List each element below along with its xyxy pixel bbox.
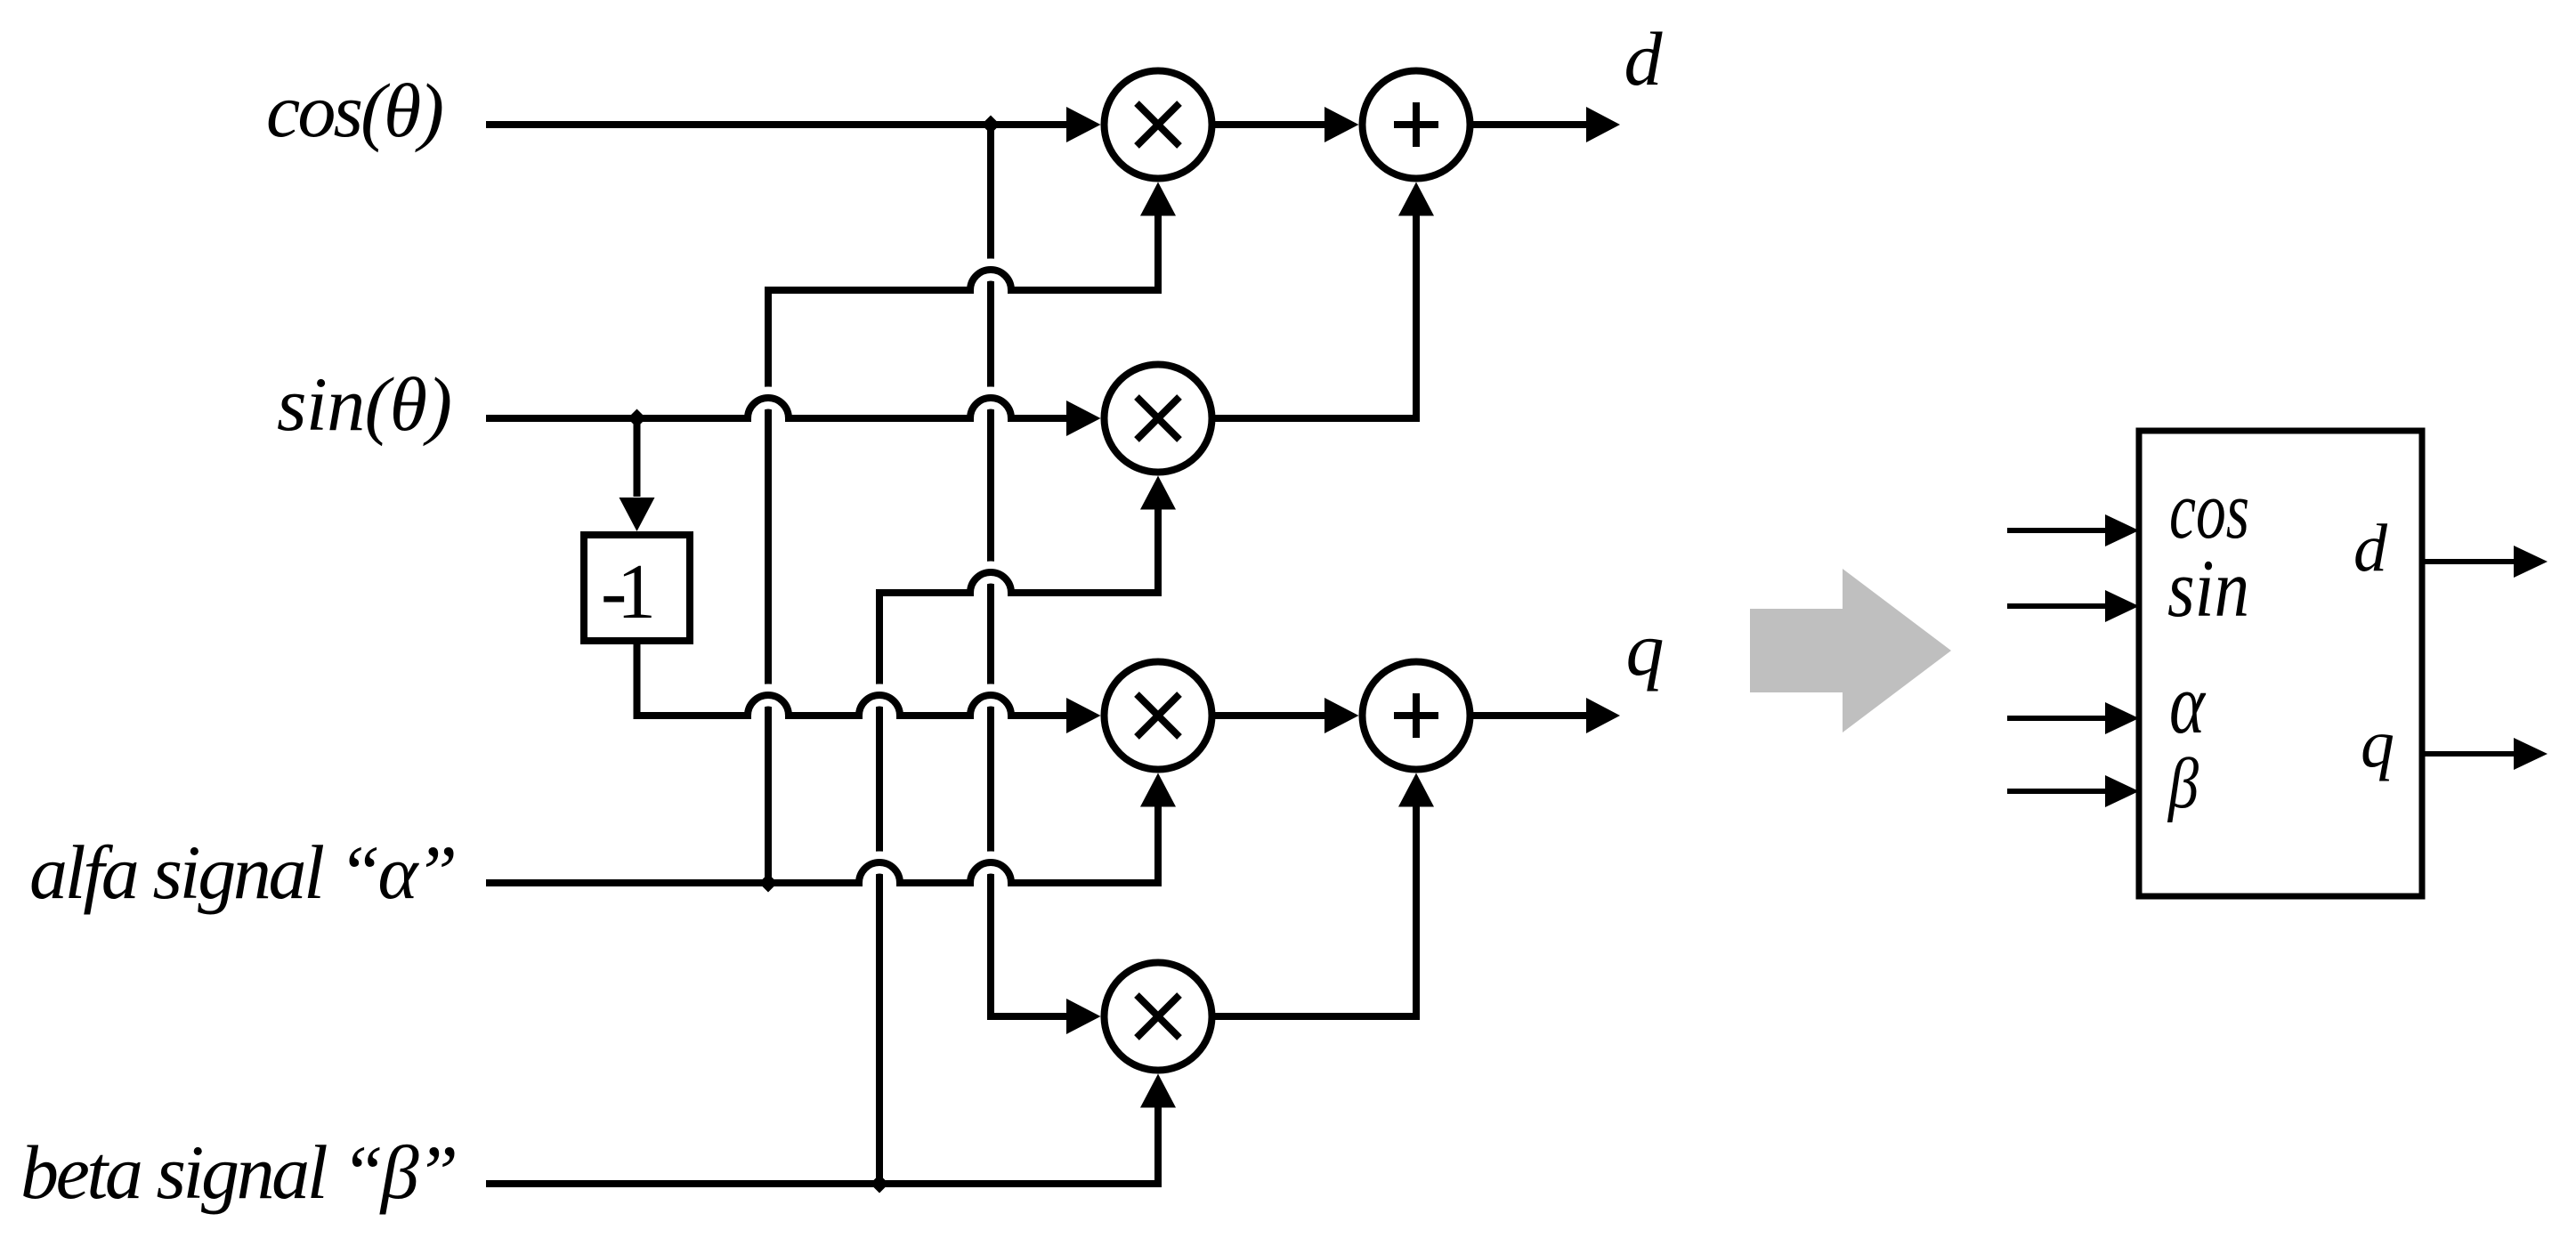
junction node on cos line bbox=[982, 116, 1000, 134]
wire M4 output up into A2 bottom bbox=[1215, 806, 1416, 1016]
arrowhead into M2 bottom bbox=[1140, 476, 1176, 510]
wire sin row y=470 with hops bbox=[486, 398, 1068, 418]
wire sin junction down into -1 box bbox=[634, 418, 641, 497]
arrowhead into M4 left bbox=[1066, 999, 1101, 1034]
adder A1 bbox=[1363, 71, 1470, 179]
multiplier M1 bbox=[1105, 71, 1212, 179]
block symbol rectangle bbox=[2139, 431, 2422, 896]
svg-text:-1: -1 bbox=[601, 549, 656, 635]
wire vertical V3 cos feed-down x=1113 bbox=[991, 125, 1066, 1016]
arrowhead q output bbox=[1586, 698, 1620, 733]
arrowhead d output bbox=[1586, 107, 1620, 142]
svg-text:β: β bbox=[2167, 745, 2199, 823]
svg-text:q: q bbox=[2361, 707, 2394, 781]
arrowhead into -1 box top bbox=[620, 498, 655, 531]
arrowhead into A2 left bbox=[1324, 698, 1359, 733]
wire beta feed y=666 into M2 bottom bbox=[952, 509, 1158, 593]
svg-text:cos: cos bbox=[2169, 465, 2249, 555]
junction node on beta line bbox=[871, 1175, 889, 1193]
adder A2 bbox=[1363, 662, 1470, 770]
wire A2 to q output bbox=[1473, 712, 1588, 719]
wire alpha feed y=326 into M1 bottom bbox=[952, 215, 1158, 290]
multiplier M4 bbox=[1105, 963, 1212, 1071]
wire beta row y=1330, corner up into M4 bbox=[486, 1107, 1158, 1184]
wire vertical V2 beta feed-up x=988 bbox=[879, 593, 970, 1184]
arrowhead into M4 bottom bbox=[1140, 1074, 1176, 1108]
svg-text:sin(θ): sin(θ) bbox=[277, 361, 452, 447]
svg-text:beta signal “β”: beta signal “β” bbox=[20, 1129, 458, 1215]
arrowhead into M1 left bbox=[1066, 107, 1101, 142]
plus sign A2 bbox=[1394, 693, 1438, 738]
arrowhead into M3 bottom bbox=[1140, 773, 1176, 807]
svg-text:alfa signal “α”: alfa signal “α” bbox=[29, 829, 458, 915]
hop casings (white breaks where wires jump over) bbox=[748, 270, 1011, 883]
svg-text:d: d bbox=[1624, 16, 1664, 101]
junction node on alpha line bbox=[759, 874, 778, 893]
multiplier M3 bbox=[1105, 662, 1212, 770]
big gray arrow bbox=[1750, 569, 1951, 732]
svg-text:sin: sin bbox=[2167, 543, 2249, 634]
wire M3 to A2 bbox=[1215, 712, 1326, 719]
junction node on sin line bbox=[628, 409, 646, 428]
arrowhead block output q bbox=[2514, 738, 2548, 770]
arrowhead into A1 left bbox=[1324, 107, 1359, 142]
wire block output d bbox=[2422, 559, 2515, 564]
wire -1 output to q row y=804 with hops bbox=[637, 644, 1069, 716]
multiply sign M1 bbox=[1137, 103, 1179, 146]
arrowhead into M3 left bbox=[1066, 698, 1101, 733]
multiply sign M4 bbox=[1137, 995, 1179, 1038]
arrowhead block input alpha bbox=[2105, 702, 2139, 734]
svg-text:q: q bbox=[1626, 606, 1665, 692]
wire block input alpha bbox=[2007, 716, 2107, 721]
arrowhead block input sin bbox=[2105, 590, 2139, 622]
wire block input beta bbox=[2007, 789, 2107, 794]
arrowhead into A2 bottom bbox=[1398, 773, 1434, 807]
wire alpha row y=992 with hops, corner up into M3 bbox=[486, 806, 1158, 883]
arrowhead block output d bbox=[2514, 546, 2548, 578]
wire vertical V1 alpha feed-up x=863 bbox=[768, 290, 970, 883]
gain block -1 bbox=[584, 535, 690, 641]
arrowhead into M2 left bbox=[1066, 401, 1101, 436]
wire block input cos bbox=[2007, 528, 2107, 533]
multiply sign M2 bbox=[1137, 397, 1179, 440]
wire block output q bbox=[2422, 751, 2515, 757]
arrowhead into M1 bottom bbox=[1140, 182, 1176, 216]
plus sign A1 bbox=[1394, 102, 1438, 147]
wire A1 to d output bbox=[1473, 121, 1588, 128]
svg-text:d: d bbox=[2353, 511, 2388, 586]
multiplier M2 bbox=[1105, 365, 1212, 473]
arrowhead into A1 bottom bbox=[1398, 182, 1434, 216]
wire block input sin bbox=[2007, 603, 2107, 609]
wire cos row y=140 bbox=[486, 121, 1068, 128]
wire M2 output up into A1 bottom bbox=[1215, 215, 1416, 418]
multiply sign M3 bbox=[1137, 694, 1179, 737]
wire M1 to A1 bbox=[1215, 121, 1326, 128]
arrowhead block input beta bbox=[2105, 775, 2139, 807]
arrowhead block input cos bbox=[2105, 514, 2139, 546]
svg-text:α: α bbox=[2169, 656, 2206, 751]
svg-text:cos(θ): cos(θ) bbox=[266, 68, 444, 153]
